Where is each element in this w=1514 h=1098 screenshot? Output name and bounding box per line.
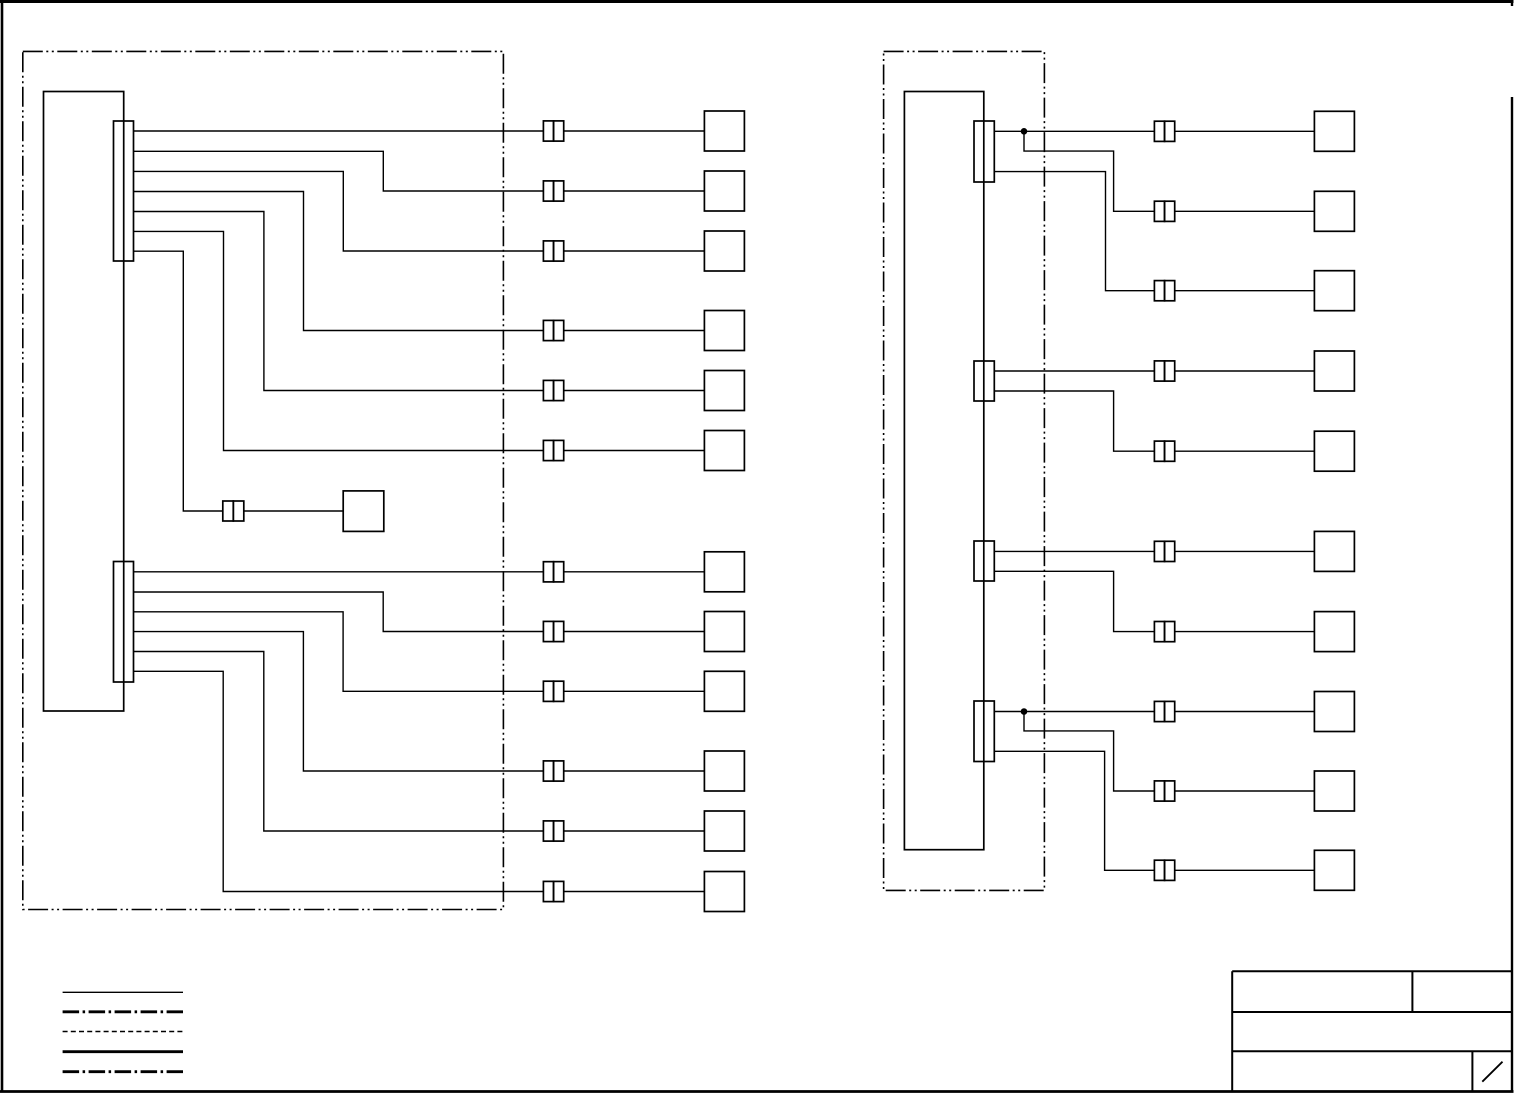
inline connector X1 [543, 121, 563, 141]
wire W18b [1175, 450, 1315, 452]
wire W17b [1175, 370, 1315, 372]
legend line dash-dot thick [63, 1010, 183, 1013]
wire W9b [564, 631, 705, 633]
inline connector X6 [543, 440, 563, 460]
device B17 [1314, 351, 1354, 391]
inline connector X15 [1154, 201, 1174, 221]
sheet border bottom [0, 1090, 1514, 1093]
inline connector X20 [1154, 622, 1174, 642]
inline connector X12 [543, 821, 563, 841]
wire W14 [994, 130, 1154, 132]
junction node N1 [1021, 128, 1028, 135]
device B21 [1314, 692, 1354, 732]
harness boundary H1 (left phantom outline) [23, 51, 504, 909]
wire W23b [1175, 869, 1315, 871]
inline connector X22 [1154, 781, 1174, 801]
connector J1 (upper strip of A1) [114, 121, 134, 261]
inline connector X11 [543, 761, 563, 781]
device B4 [704, 311, 744, 351]
inline connector X21 [1154, 701, 1174, 721]
inline connector X13 [543, 881, 563, 901]
device B9 [704, 612, 744, 652]
inline connector X9 [543, 621, 563, 641]
inline connector X16 [1154, 281, 1174, 301]
wire W15b [1175, 210, 1315, 212]
inline connector X17 [1154, 361, 1174, 381]
wire W14b [1175, 130, 1315, 132]
wire W1b [564, 130, 705, 132]
sheet border top [0, 0, 1514, 3]
wire W12 [134, 652, 544, 832]
wire W13 [134, 671, 544, 891]
legend line solid thin [63, 991, 183, 993]
device B8 [704, 552, 744, 592]
inline connector X7 [223, 501, 244, 521]
device B20 [1314, 612, 1354, 652]
wire W7b [244, 510, 343, 512]
device B11 [704, 751, 744, 791]
wire W8b [564, 571, 705, 573]
control unit A2 [904, 92, 983, 850]
wire W3b [564, 250, 705, 252]
device B3 [704, 231, 744, 271]
device B6 [704, 431, 744, 471]
legend line dash-dot thick 2 [63, 1070, 183, 1073]
wire W3 [134, 171, 544, 251]
wire W19b [1175, 550, 1315, 552]
connector J5 (strip C of A2) [974, 541, 994, 581]
wire W20 [994, 571, 1154, 631]
wire W6b [564, 450, 705, 452]
device B5 [704, 371, 744, 411]
inline connector X2 [543, 181, 563, 201]
device B13 [704, 872, 744, 912]
wire W5b [564, 390, 705, 392]
device B7 [343, 491, 384, 532]
wire W16 [994, 172, 1154, 291]
device B1 [704, 111, 744, 151]
device B22 [1314, 771, 1354, 811]
wire W10b [564, 690, 705, 692]
wire W21 [994, 711, 1154, 713]
wire W7 [134, 251, 223, 511]
connector J4 (strip B of A2) [974, 361, 994, 401]
wire W10 [134, 612, 544, 692]
wire W23 [994, 751, 1154, 870]
wire W2b [564, 190, 705, 192]
device B2 [704, 171, 744, 211]
wire W6 [134, 231, 544, 450]
wire W22b [1175, 790, 1315, 792]
wire W20b [1175, 631, 1315, 633]
wire W9 [134, 592, 544, 632]
connector J2 (lower strip of A1) [114, 562, 134, 683]
inline connector X19 [1154, 541, 1174, 561]
inline connector X3 [543, 241, 563, 261]
wire W15 [1024, 131, 1154, 211]
wire W21b [1175, 711, 1315, 713]
control unit A1 [44, 92, 124, 712]
wire W16b [1175, 290, 1315, 292]
wire W4 [134, 192, 544, 331]
device B14 [1314, 111, 1354, 151]
device B19 [1314, 531, 1354, 571]
inline connector X18 [1154, 441, 1174, 461]
title block [1232, 971, 1512, 1091]
inline connector X14 [1154, 121, 1174, 141]
inline connector X5 [543, 380, 563, 400]
wire W1 [134, 130, 544, 132]
sheet border left [1, 0, 4, 1092]
device B16 [1314, 271, 1354, 311]
inline connector X10 [543, 681, 563, 701]
wire W11b [564, 770, 705, 772]
device B12 [704, 811, 744, 851]
wire W18 [994, 391, 1154, 451]
device B15 [1314, 191, 1354, 231]
wire W11 [134, 632, 544, 771]
wire W8 [134, 571, 544, 573]
wire W17 [994, 370, 1154, 372]
inline connector X4 [543, 320, 563, 340]
connector J3 (strip A of A2) [974, 121, 994, 182]
device B23 [1314, 850, 1354, 890]
wire W5 [134, 212, 544, 391]
wire W22 [1024, 712, 1154, 792]
connector J6 (strip D of A2) [974, 701, 994, 762]
device B10 [704, 671, 744, 711]
inline connector X8 [543, 562, 563, 582]
wire W2 [134, 151, 544, 191]
legend line dashed thin [63, 1031, 183, 1033]
wire W12b [564, 830, 705, 832]
device B18 [1314, 431, 1354, 471]
junction node N2 [1021, 708, 1028, 715]
inline connector X23 [1154, 860, 1174, 880]
wire W13b [564, 891, 705, 893]
wire W4b [564, 330, 705, 332]
harness boundary H2 (right phantom outline) [884, 51, 1045, 890]
legend line solid thick [63, 1050, 183, 1053]
title block diagonal slash [1482, 1062, 1502, 1082]
wire W19 [994, 550, 1154, 552]
sheet border right [1511, 0, 1513, 1092]
